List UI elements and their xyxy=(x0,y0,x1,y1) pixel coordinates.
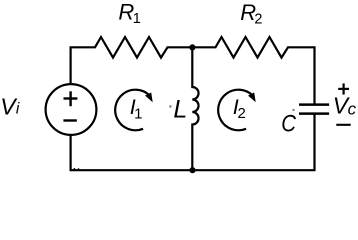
svg-text:L: L xyxy=(173,96,187,124)
svg-text:2: 2 xyxy=(254,11,262,27)
svg-text:i: i xyxy=(16,101,20,118)
svg-text:1: 1 xyxy=(134,105,142,122)
svg-text:1: 1 xyxy=(133,11,141,27)
svg-text:2: 2 xyxy=(238,105,246,122)
svg-text:c: c xyxy=(348,100,357,119)
svg-text:C: C xyxy=(281,110,297,137)
